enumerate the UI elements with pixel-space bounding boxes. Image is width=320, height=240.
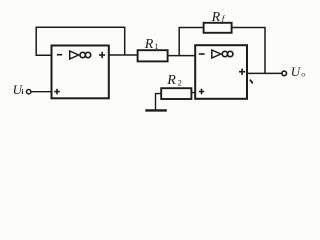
input terminal circle — [27, 90, 31, 94]
svg-text:2: 2 — [178, 79, 182, 88]
wire Ui input to U1 — [31, 91, 52, 93]
svg-text:i: i — [21, 87, 23, 96]
ground — [145, 109, 167, 111]
op-amp U1 box — [52, 46, 109, 99]
svg-text:o: o — [301, 70, 305, 79]
svg-text:R: R — [144, 37, 154, 52]
wire U1 feedback loop — [36, 27, 125, 55]
svg-text:R: R — [166, 73, 176, 88]
op-amp U2 infinity symbol — [222, 51, 227, 56]
op-amp U1 minus input sign — [57, 54, 62, 56]
wire Rf to output node — [232, 28, 265, 74]
svg-text:1: 1 — [154, 42, 158, 51]
stray tick mark — [250, 80, 253, 84]
op-amp U1 triangle symbol — [70, 51, 79, 59]
resistor R2 — [161, 88, 191, 99]
op-amp U2 plus input sign — [199, 89, 204, 95]
svg-text:R: R — [211, 10, 221, 25]
wire U1 output to R1 — [109, 54, 138, 56]
op-amp U1 infinity symbol — [80, 52, 85, 57]
wire R2 to ground — [156, 94, 162, 110]
resistor R1 — [138, 50, 168, 61]
op-amp U2 triangle symbol — [212, 50, 221, 58]
op-amp U2 box — [195, 45, 247, 99]
op-amp U2 plus output sign — [239, 69, 245, 75]
resistor Rf — [204, 23, 232, 33]
wire Rf branch — [179, 28, 203, 56]
svg-text:U: U — [291, 64, 302, 79]
op-amp U2 minus input sign — [199, 53, 205, 55]
wire R2 to U2 — [191, 92, 195, 94]
output terminal circle — [282, 71, 287, 76]
wire U2 output — [247, 72, 282, 74]
wire R1 to U2 — [168, 55, 195, 57]
op-amp U1 plus output sign — [99, 52, 105, 58]
op-amp U1 plus input sign — [54, 89, 59, 95]
